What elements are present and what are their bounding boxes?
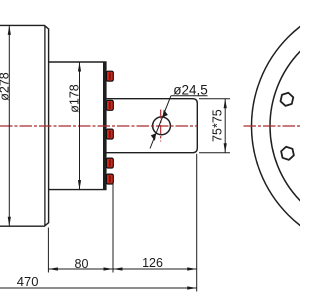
dimension 80	[48, 267, 113, 270]
flange face thick line	[103, 61, 107, 190]
hub cylinder o178 top edge	[49, 61, 103, 63]
brake drum outline	[0, 25, 49, 226]
wheel stud B2	[106, 100, 113, 110]
front view flange circle	[270, 19, 320, 234]
leader arrow lower	[151, 133, 156, 141]
extension line at stud tips x113	[112, 184, 114, 273]
svg-text:ø178: ø178	[68, 84, 82, 113]
front view horizontal centerline	[244, 125, 301, 127]
dimension 126	[113, 267, 197, 270]
svg-text:ø278: ø278	[0, 72, 12, 101]
dimension o278	[8, 25, 11, 226]
dimension o178	[78, 62, 81, 190]
dimension 75x75 line	[224, 99, 227, 153]
extension line at plate end x196.7	[196, 154, 198, 292]
wheel stud B5	[106, 174, 113, 184]
square tube plate 75x75	[107, 99, 198, 153]
extension line at drum face x48	[47, 228, 49, 273]
dimension 75x75 extension top	[199, 98, 230, 100]
wheel stud B3	[106, 129, 113, 139]
leader arrow upper	[163, 110, 168, 118]
vertical centerline of hole	[160, 110, 162, 142]
svg-text:75*75: 75*75	[210, 109, 224, 142]
hub cylinder o178 bottom edge	[49, 189, 103, 191]
svg-text:470: 470	[17, 274, 39, 289]
dimension 75x75 extension bottom	[199, 152, 230, 154]
hex bolt H2	[279, 146, 295, 161]
front view outer circle	[252, 0, 320, 252]
hex bolt H1	[279, 92, 295, 107]
main horizontal centerline left view	[0, 125, 198, 127]
hole o24.5 circle	[153, 117, 171, 135]
svg-text:80: 80	[75, 257, 89, 271]
svg-text:ø24,5: ø24,5	[173, 83, 208, 98]
drum rim inner edge line	[44, 25, 46, 226]
wheel stud B4	[106, 158, 113, 168]
wheel stud B1	[106, 71, 113, 81]
leader line o24.5	[150, 96, 208, 149]
svg-text:126: 126	[142, 256, 163, 270]
dimension 470	[0, 286, 197, 289]
